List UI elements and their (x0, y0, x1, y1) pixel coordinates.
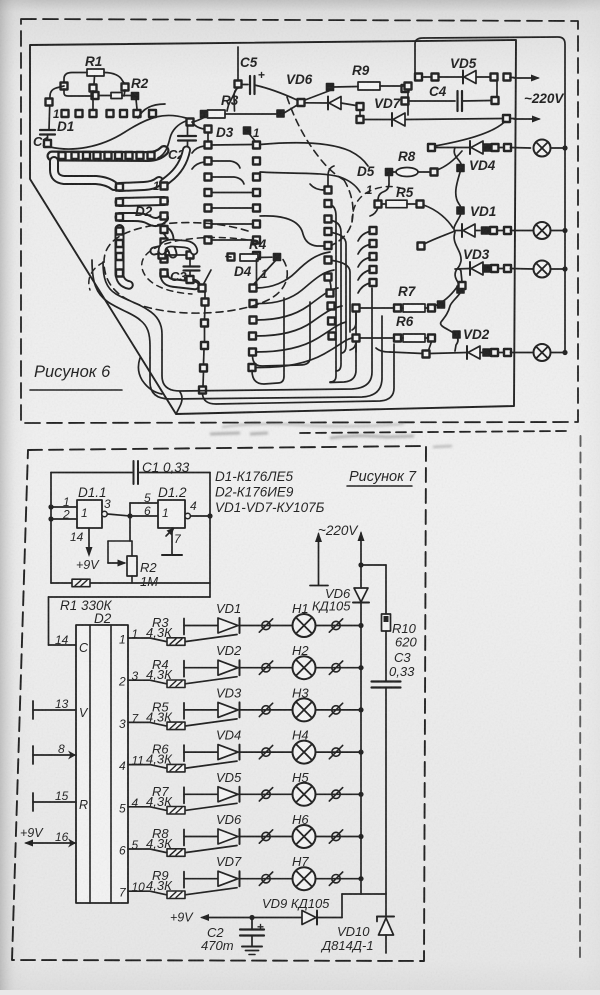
wire pin to resistor R8 (128, 849, 166, 853)
wire to lamp (240, 667, 293, 669)
pad column x328 (325, 187, 332, 194)
wire to lamp (240, 878, 293, 880)
mains arrow left (318, 534, 320, 585)
wire right vertical (209, 473, 211, 598)
contact symbol (262, 790, 270, 798)
gate wire (186, 761, 237, 768)
traces near C3 (162, 243, 194, 251)
wire lamp to bus (316, 625, 362, 627)
trace trunk band to D2 (54, 161, 114, 186)
anode terminal bar (183, 872, 185, 888)
wire to lamp (240, 836, 293, 838)
wire osc to D2 clock (49, 596, 211, 598)
contact symbol (332, 706, 340, 714)
mains arrow 2 (514, 118, 539, 120)
squiggle traces near C2 (158, 121, 186, 158)
wire pin to resistor R3 (128, 638, 166, 642)
wire left vertical (50, 473, 52, 584)
wire to lamp (240, 793, 293, 795)
mains arrow 1 (514, 77, 538, 79)
ground (242, 946, 262, 948)
wire to lamp (240, 751, 293, 753)
wire C5 to R3 (227, 88, 237, 111)
wire lamp to bus (316, 667, 362, 669)
thyristor gate bus vertical (441, 148, 462, 352)
wire anode (184, 667, 218, 669)
junction (358, 834, 363, 839)
wire to lamp (240, 709, 293, 711)
wide finger row 1 (120, 181, 160, 187)
contact symbol (262, 621, 270, 629)
anode terminal bar (183, 830, 185, 846)
lamp 2 (534, 222, 551, 239)
wire anode (184, 793, 218, 795)
dashed arc left (89, 262, 104, 290)
wire to lamp (240, 625, 293, 627)
IC D2 pads left column (116, 184, 123, 191)
IC D1 pads row 2 (59, 152, 66, 159)
lamp 1 (534, 140, 551, 157)
figure 6 dashed frame (21, 19, 578, 423)
pad column lower left (202, 299, 209, 306)
gate wire (186, 803, 237, 810)
nested loop traces bottom (162, 288, 372, 391)
resistor R4 4,3К (167, 680, 185, 688)
trace along bottom edge (138, 358, 162, 394)
wire (64, 89, 90, 96)
contact symbol (262, 832, 270, 840)
IC D3 pads left column (205, 126, 212, 133)
junction (358, 792, 363, 797)
wide stub (164, 242, 173, 254)
trace bundle D2 down (103, 262, 148, 310)
wire lamp to bus (316, 709, 362, 711)
vertical traces to bottom loops (328, 204, 336, 382)
dashed outline big oval (104, 223, 287, 314)
wide finger row 3 (120, 217, 165, 222)
resistor R9 4,3К (167, 891, 185, 899)
ground band along D1 row2 (52, 151, 164, 157)
contact symbol (262, 875, 270, 883)
wire anode (184, 836, 218, 838)
fan traces middle to right (257, 252, 331, 288)
contact symbol (262, 706, 270, 714)
wire C1 to C2 (50, 115, 186, 149)
wide J-trace right (154, 230, 170, 252)
resistor R8 4,3К (167, 849, 185, 857)
wire pin to resistor R4 (128, 680, 166, 684)
wire row1 up to row VD7 (435, 122, 505, 147)
gate wire (186, 719, 237, 726)
wide bottom hook (164, 273, 195, 286)
resistor R7 4,3К (167, 807, 185, 815)
wide finger row 2 (120, 201, 165, 202)
wire lamp to bus (316, 836, 362, 838)
stray dashed vertical right margin (579, 436, 582, 957)
wire pin to resistor R9 (128, 891, 166, 895)
hooks from x373 col (358, 232, 370, 242)
gate wire (186, 677, 237, 684)
wire lamp to bus (316, 878, 362, 880)
junction (358, 750, 363, 755)
wire anode (184, 625, 218, 627)
resistor R6 4,3К (167, 764, 185, 772)
wire anode (184, 751, 218, 753)
long traces from D3 col to right (260, 143, 368, 166)
anode terminal bar (183, 619, 185, 635)
gate wire (186, 888, 237, 895)
wire pin to resistor R5 (128, 722, 166, 726)
junction (358, 665, 363, 670)
branch to R10 (361, 564, 386, 566)
anode terminal bar (183, 661, 185, 677)
bottom junction wires (342, 893, 386, 895)
junction (358, 707, 363, 712)
dashed outline D5 (352, 187, 406, 223)
anode terminal bar (183, 787, 185, 803)
wire anode (184, 878, 218, 880)
wire lamp to bus (316, 793, 362, 795)
traces between D3 columns (212, 144, 254, 147)
dashed diagonal (287, 97, 344, 180)
scan smudge between figures (210, 424, 452, 447)
IC D3/D4 pads right column (253, 142, 260, 149)
gate wire (186, 635, 237, 642)
lamp 3 (534, 261, 551, 278)
mains arrow right / bus (360, 533, 362, 565)
contact symbol (332, 748, 340, 756)
lamp 4 (534, 344, 551, 361)
contact symbol (332, 664, 340, 672)
junction (358, 623, 363, 628)
contact symbol (332, 790, 340, 798)
figure 7 dashed frame (12, 446, 426, 961)
wide S-trace from C2 (164, 150, 187, 183)
contact symbol (262, 748, 270, 756)
contact symbol (332, 832, 340, 840)
wire pin to resistor R7 (128, 807, 166, 811)
wire anode (184, 709, 218, 711)
wide trunk left column (115, 229, 125, 274)
wire C5 R3 junction (234, 88, 238, 111)
wire R3 to C2 (193, 118, 204, 123)
PCB board outline (30, 40, 516, 414)
gate wire (186, 846, 237, 853)
wire top loop to lamps bus (415, 37, 565, 351)
anode terminal bar (183, 745, 185, 761)
junction (358, 876, 363, 881)
wire lamp to bus (316, 751, 362, 753)
contact symbol (332, 621, 340, 629)
pad column lower middle (250, 285, 257, 292)
wires to D1.2 (127, 513, 132, 518)
dashed outline inner (142, 238, 258, 295)
resistor R3 4,3К (167, 638, 185, 646)
contact symbol (332, 875, 340, 883)
resistor R5 4,3К (167, 722, 185, 730)
wire pin to resistor R6 (128, 765, 166, 769)
pad column x373 (370, 227, 377, 234)
contact symbol (262, 664, 270, 672)
stray dashed line between figures (300, 431, 567, 433)
resistor R1 (51, 582, 210, 584)
anode terminal bar (183, 703, 185, 719)
pads lower x331 (327, 290, 334, 297)
traces from D4 column down (256, 259, 258, 284)
